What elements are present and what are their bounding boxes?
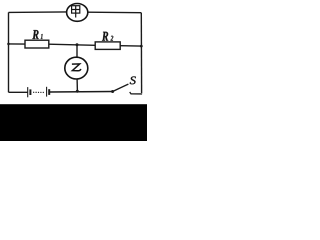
black band at bottom <box>0 104 147 141</box>
wire top-left segment <box>9 11 67 14</box>
switch S blade <box>113 84 129 91</box>
wire meter-branch upper <box>76 45 78 58</box>
wire left side <box>8 12 10 92</box>
wire right side <box>140 13 142 93</box>
switch fixed contact <box>130 92 142 94</box>
battery cell1 short plate <box>29 89 31 95</box>
node right junction <box>140 45 143 48</box>
battery cell1 long plate <box>27 87 29 97</box>
battery B1 <box>28 87 50 98</box>
switch S pivot dot <box>111 90 114 93</box>
label S <box>130 77 136 85</box>
wire bottom-left to battery <box>9 91 28 93</box>
node center junction <box>76 43 79 46</box>
node bottom junction <box>76 90 79 93</box>
wire middle right segment <box>120 45 141 47</box>
resistor R2 <box>95 32 120 50</box>
wire middle left segment <box>9 43 26 45</box>
resistor R1 <box>25 30 49 48</box>
battery cell2 long plate <box>46 87 48 97</box>
node left junction <box>7 43 10 46</box>
battery dots <box>33 92 44 93</box>
wire battery to switch pivot <box>50 91 113 94</box>
battery cell2 short plate <box>48 89 50 95</box>
wire top-right segment <box>88 11 141 14</box>
wire meter-branch lower <box>76 79 78 91</box>
wire middle center segment <box>49 44 95 45</box>
meter U2 (乙) <box>65 57 88 79</box>
meter U1 (甲) <box>67 4 88 22</box>
